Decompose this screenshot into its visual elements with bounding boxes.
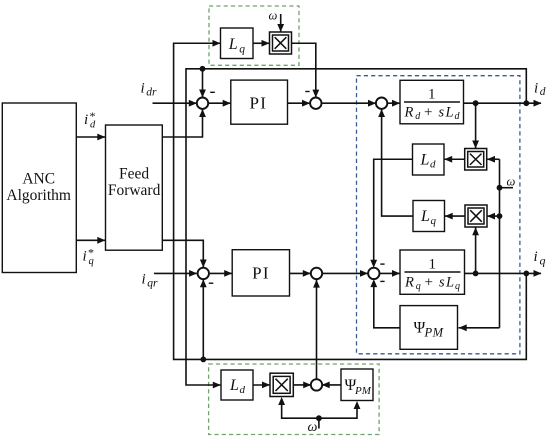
svg-text:1: 1 — [428, 87, 436, 103]
wire S1 to PI d — [209, 102, 231, 104]
wire S6 into 1/(Rq+sLq) — [380, 272, 400, 274]
wire mult d to Ld blue — [445, 158, 465, 160]
arrow into mult q bottom — [472, 227, 479, 235]
svg-text:q: q — [239, 43, 245, 55]
wire multiplier bottom to S7 — [293, 384, 311, 386]
svg-text:i: i — [534, 249, 538, 265]
arrow into S7 right — [322, 382, 330, 389]
wire omega top into multiplier — [280, 14, 282, 32]
arrow into mult d right — [487, 156, 495, 163]
block Lq blue — [413, 201, 445, 232]
multiplier d blue (omega x id) — [465, 149, 487, 171]
svg-text:i: i — [142, 272, 146, 288]
svg-text:dr: dr — [146, 86, 157, 98]
arrow into mult bottom bottom (omega) — [278, 397, 285, 405]
wire 1/(Rq+sLq) output to i_q arrow — [465, 272, 542, 274]
arrow into Ld bottom box — [213, 382, 221, 389]
arrow into mult top left — [262, 40, 270, 47]
arrow into FF i_q* — [97, 237, 105, 244]
svg-text:PI: PI — [249, 93, 267, 112]
svg-text:ω: ω — [507, 174, 516, 188]
svg-text:L: L — [445, 105, 454, 121]
wire Lq top to multiplier top — [253, 42, 269, 44]
block Psi_PM blue — [400, 306, 458, 350]
minus at S1 top — [210, 91, 215, 93]
arrow into S3 left — [368, 100, 376, 107]
wire branch from dot D1 down into S1 top — [202, 69, 204, 97]
svg-text:1: 1 — [428, 257, 436, 273]
svg-text:i: i — [141, 80, 145, 96]
minus at S4 bottom — [209, 282, 214, 284]
node D8 i_q feedback bottom branch — [200, 357, 206, 363]
wire i_dr input to sum S1 — [153, 102, 197, 104]
svg-text:q: q — [540, 254, 546, 268]
svg-text:q: q — [455, 281, 460, 292]
label 1/(Rq+sLq) fraction — [404, 257, 461, 293]
block PI d-axis — [231, 80, 288, 124]
arrow into S6 bottom (minus) — [370, 279, 377, 287]
block Feed Forward — [106, 125, 163, 250]
wire FF q-output to S4 top — [162, 240, 203, 267]
arrow into S6 top (minus) — [370, 260, 377, 268]
arrow into S2 top (minus) — [312, 90, 319, 98]
arrow into Lq blue right — [445, 213, 453, 220]
node D6 i_q branch — [473, 271, 479, 277]
svg-text:PI: PI — [252, 264, 270, 283]
wire S5 to plant sum S6 — [323, 272, 368, 274]
multiplier bottom (omega x Ld) — [270, 373, 293, 396]
arrow into Rq box — [392, 270, 400, 277]
wire Lq blue to S3 bottom — [382, 110, 413, 216]
svg-text:s: s — [439, 105, 445, 121]
svg-text:d: d — [540, 86, 546, 98]
blue dashed box (motor model) — [357, 76, 520, 354]
svg-text:i: i — [534, 81, 538, 97]
label 1/(Rd+sLd) fraction — [404, 87, 461, 123]
svg-text:Algorithm: Algorithm — [6, 187, 71, 204]
svg-text:L: L — [228, 36, 238, 53]
minus at S2 top — [305, 91, 309, 93]
svg-text:qr: qr — [147, 278, 158, 290]
svg-text:q: q — [89, 256, 94, 267]
wire 1/(Rd+sLd) output to i_d arrow — [464, 102, 542, 104]
wire Psi_PM blue to S6 bottom — [374, 285, 400, 328]
minus at S6 bottom — [380, 280, 384, 282]
arrow omega into mult top — [277, 24, 284, 32]
arrow into S1 top (minus) — [199, 90, 206, 98]
wire PI d to sum S2 — [288, 102, 310, 104]
wire Psi_PM bottom to S7 — [322, 384, 341, 386]
node D4 omega rail upper — [497, 185, 503, 191]
wire S2 to plant sum S3 — [322, 102, 376, 104]
multiplier q blue (omega x iq) — [465, 205, 487, 227]
wire Ld bottom to multiplier bottom — [253, 384, 270, 386]
block 1/(Rd+sLd) — [400, 80, 464, 124]
arrow into Psi_PM blue right — [459, 324, 467, 331]
arrow into mult bottom left — [262, 382, 270, 389]
SUMMING JUNCTIONS — [197, 98, 387, 391]
summing junction S3 (d plant) — [376, 98, 387, 109]
arrow into S1 left — [189, 100, 197, 107]
arrow into S5 bottom — [313, 280, 320, 288]
wire mult q to Lq blue — [445, 215, 465, 217]
wire multiplier top to S2 top — [292, 43, 316, 97]
svg-text:Feed: Feed — [119, 166, 149, 183]
summing junction S7 (bottom green) — [311, 379, 322, 390]
svg-text:ANC: ANC — [22, 170, 55, 187]
block 1/(Rq+sLq) — [400, 250, 465, 294]
wire omega rail into mult q — [488, 215, 500, 217]
svg-text:L: L — [445, 275, 454, 291]
wire branch from dot D8 up into S4 bottom — [202, 280, 204, 360]
wire omega bottom distribution — [282, 404, 357, 419]
svg-text:i: i — [83, 249, 87, 265]
wire ANC to FF i_q* — [77, 239, 106, 241]
summing junction S1 (d reference) — [197, 98, 208, 109]
wire S7 up to S5 bottom — [316, 280, 318, 379]
wire omega stub label — [500, 187, 514, 189]
BLOCKS — [2, 28, 464, 401]
block Psi_PM bottom (green) — [341, 369, 373, 401]
wire omega rail into mult d — [488, 158, 500, 160]
block PI q-axis — [232, 250, 289, 296]
wire omega rail right (blue box) — [499, 159, 501, 328]
wire omega bottom stub — [318, 418, 320, 428]
arrow into S1 bottom — [199, 109, 206, 117]
svg-text:i: i — [84, 112, 88, 128]
block Lq top (green) — [221, 28, 254, 59]
svg-text:s: s — [439, 275, 445, 291]
summing junction S5 (q post-PI) — [311, 268, 322, 279]
multiplier top (omega x Lq) — [270, 32, 292, 54]
arrow into Rd box — [392, 100, 400, 107]
block ANC Algorithm — [2, 103, 76, 273]
svg-text:+: + — [425, 275, 433, 291]
node D9 omega bottom — [316, 415, 322, 421]
wire PI q to sum S5 — [290, 272, 311, 274]
arrow into Psi_PM bottom (omega) — [354, 401, 361, 409]
wire omega rail into Psi_PM blue — [459, 327, 500, 329]
svg-text:d: d — [90, 120, 96, 131]
arrow into Ld blue right — [444, 156, 452, 163]
wire i_d feedback: up, left, down, into bottom Ld — [186, 69, 526, 385]
minus at S6 top — [380, 263, 384, 265]
wire FF d-output to S1 bottom — [162, 110, 203, 137]
node D7 i_q output branch — [523, 271, 529, 277]
block Ld bottom (green) — [221, 370, 253, 400]
arrow into FF i_d* — [97, 134, 105, 141]
wire i_q feedback: down, left, up, into top Lq — [174, 43, 527, 359]
svg-text:L: L — [420, 208, 430, 225]
svg-text:q: q — [416, 281, 421, 292]
arrow into S6 left — [360, 270, 368, 277]
arrow into mult d top — [472, 141, 479, 149]
node D1 on i_d feedback above S1 — [200, 66, 206, 72]
svg-text:PM: PM — [354, 385, 372, 397]
svg-text:+: + — [424, 105, 432, 121]
block Ld blue — [413, 144, 445, 175]
arrow into PI d — [223, 100, 231, 107]
svg-text:d: d — [430, 158, 436, 170]
arrow into S5 left — [303, 270, 311, 277]
svg-text:ω: ω — [269, 9, 278, 23]
wire S3 into 1/(Rd+sLd) — [388, 102, 400, 104]
arrow into S2 left — [302, 100, 310, 107]
summing junction S2 (d post-PI) — [310, 98, 321, 109]
node D3 i_d output branch — [523, 100, 529, 106]
arrow into PI q — [224, 270, 232, 277]
green dashed box bottom (feedforward q-compensation) — [209, 364, 380, 435]
summing junction S4 (q reference) — [198, 268, 209, 279]
svg-text:d: d — [240, 384, 246, 396]
arrow into S4 top — [200, 260, 207, 268]
arrow i_d output — [534, 100, 542, 107]
node D2 i_d branch — [473, 100, 479, 106]
arrow into Lq top box — [213, 40, 221, 47]
svg-text:q: q — [431, 215, 437, 227]
svg-text:Forward: Forward — [108, 182, 161, 199]
wire S4 to PI q — [210, 272, 232, 274]
svg-text:PM: PM — [424, 326, 444, 340]
wire i_q branch up into blue multiplier q — [475, 228, 477, 274]
svg-text:R: R — [404, 105, 414, 121]
ARROWHEADS — [97, 24, 541, 409]
arrow into mult q right — [487, 213, 495, 220]
wire Ld blue to S6 top — [374, 159, 413, 262]
arrow into S3 bottom — [378, 109, 385, 117]
summing junction S6 (q plant) — [368, 268, 379, 279]
wire ANC to FF i_d* — [77, 136, 106, 138]
arrow into S7 left — [303, 382, 311, 389]
wire i_d branch down into blue multiplier d — [475, 103, 477, 148]
wire i_qr input to sum S4 — [154, 272, 197, 274]
MINUS SIGNS — [209, 92, 385, 284]
node D5 omega rail lower — [497, 213, 503, 219]
svg-text:L: L — [420, 151, 430, 168]
arrow into S4 bottom (minus) — [200, 279, 207, 287]
svg-text:L: L — [229, 377, 239, 394]
svg-text:ω: ω — [308, 420, 318, 435]
arrow i_q output — [534, 270, 542, 277]
arrow into S4 left — [189, 270, 197, 277]
svg-text:R: R — [404, 275, 414, 291]
green dashed box top (feedforward d-compensation) — [209, 6, 299, 65]
